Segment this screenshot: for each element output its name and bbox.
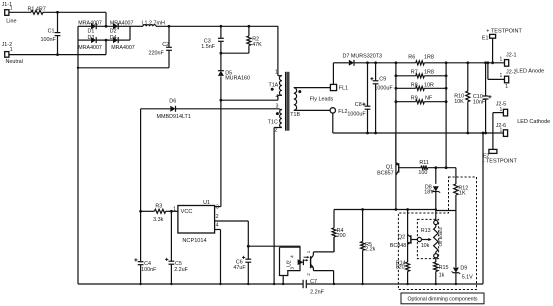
svg-text:J2-1: J2-1 [506, 52, 517, 58]
svg-text:NCP1014: NCP1014 [182, 238, 206, 244]
svg-text:4: 4 [289, 255, 294, 258]
svg-text:3.3k: 3.3k [153, 217, 163, 223]
svg-text:1.5nF: 1.5nF [201, 44, 215, 50]
svg-text:1: 1 [275, 69, 278, 75]
svg-text:100: 100 [418, 170, 427, 176]
svg-text:R1 4R7: R1 4R7 [28, 7, 46, 13]
svg-text:1R8: 1R8 [424, 55, 434, 61]
svg-text:1: 1 [500, 73, 503, 79]
svg-text:1000uF: 1000uF [374, 86, 393, 92]
svg-text:10K: 10K [454, 99, 464, 105]
svg-text:D9: D9 [460, 266, 467, 272]
svg-text:MRA4007: MRA4007 [110, 21, 134, 27]
svg-text:D2: D2 [110, 28, 117, 34]
svg-text:C4: C4 [144, 261, 151, 267]
svg-text:T1A: T1A [269, 82, 279, 88]
svg-text:R15: R15 [439, 265, 449, 271]
svg-text:1k: 1k [439, 272, 445, 278]
svg-text:C1: C1 [48, 28, 55, 34]
svg-text:4: 4 [216, 222, 219, 228]
svg-text:R7: R7 [411, 70, 418, 76]
svg-text:47uF: 47uF [233, 265, 246, 271]
svg-text:100nF: 100nF [41, 37, 57, 43]
svg-text:E1: E1 [482, 36, 489, 42]
svg-text:220nF: 220nF [149, 51, 165, 57]
svg-text:5.1V: 5.1V [462, 274, 473, 280]
svg-text:10nF: 10nF [473, 99, 486, 105]
svg-text:Neutral: Neutral [6, 59, 23, 65]
svg-text:MRA4007: MRA4007 [111, 45, 135, 51]
svg-text:D6: D6 [169, 99, 176, 105]
svg-text:- TESTPOINT: - TESTPOINT [483, 159, 518, 165]
svg-text:C2: C2 [162, 42, 169, 48]
svg-text:D1: D1 [88, 28, 95, 34]
svg-text:T1B: T1B [290, 112, 300, 118]
svg-text:2.2nF: 2.2nF [310, 289, 324, 295]
svg-text:C8: C8 [355, 102, 362, 108]
svg-text:MURA160: MURA160 [225, 76, 250, 82]
svg-text:L1 2.7mH: L1 2.7mH [142, 21, 165, 27]
svg-text:D3: D3 [88, 35, 95, 41]
svg-text:Fly Leads: Fly Leads [310, 97, 334, 103]
svg-text:U2: U2 [287, 260, 293, 267]
svg-text:1: 1 [10, 47, 13, 53]
svg-text:Line: Line [6, 18, 16, 24]
svg-text:NF: NF [425, 96, 433, 102]
svg-text:+ TESTPOINT: + TESTPOINT [486, 28, 522, 34]
svg-text:1: 1 [500, 56, 503, 62]
svg-text:R9: R9 [411, 96, 418, 102]
svg-text:1: 1 [500, 107, 503, 113]
svg-text:3: 3 [216, 204, 219, 210]
svg-text:1: 1 [505, 84, 508, 90]
svg-text:R8: R8 [411, 82, 418, 88]
svg-text:200: 200 [337, 233, 346, 239]
svg-text:J2-2: J2-2 [506, 70, 517, 76]
svg-text:1: 1 [10, 6, 13, 12]
svg-text:18V: 18V [424, 190, 434, 196]
svg-text:LED Cathode: LED Cathode [517, 119, 550, 125]
svg-text:R3: R3 [155, 204, 162, 210]
svg-text:C5: C5 [175, 261, 182, 267]
svg-text:BC857: BC857 [377, 170, 393, 176]
svg-text:Optional dimming components: Optional dimming components [407, 296, 477, 302]
svg-text:1000uF: 1000uF [347, 111, 366, 117]
svg-text:T1C: T1C [268, 119, 278, 125]
svg-text:FL2: FL2 [338, 109, 347, 115]
svg-text:10R: 10R [424, 82, 434, 88]
svg-text:D4: D4 [110, 35, 117, 41]
svg-text:1R8: 1R8 [424, 70, 434, 76]
svg-text:Off board: Off board [438, 227, 443, 247]
svg-text:MRA4007: MRA4007 [78, 21, 102, 27]
svg-text:2: 2 [275, 128, 278, 134]
svg-text:R13: R13 [421, 228, 431, 234]
svg-text:LED Anode: LED Anode [516, 69, 544, 75]
svg-text:R6: R6 [408, 55, 415, 61]
svg-text:2.2uF: 2.2uF [174, 267, 188, 273]
svg-text:C9: C9 [379, 76, 386, 82]
svg-text:4: 4 [276, 94, 279, 100]
svg-text:2: 2 [306, 273, 311, 276]
svg-text:D7 MURS320T3: D7 MURS320T3 [343, 54, 383, 60]
svg-text:2.2k: 2.2k [365, 247, 375, 253]
svg-text:FL1: FL1 [339, 85, 348, 91]
svg-text:2: 2 [216, 214, 219, 220]
svg-text:1K: 1K [459, 190, 466, 196]
svg-text:3: 3 [289, 266, 294, 269]
svg-text:1: 1 [306, 250, 311, 253]
svg-text:Q2: Q2 [398, 234, 405, 240]
svg-text:1: 1 [500, 128, 503, 134]
svg-text:10k: 10k [421, 243, 430, 249]
svg-text:100nF: 100nF [141, 267, 157, 273]
svg-text:R11: R11 [419, 160, 429, 166]
svg-text:VCC: VCC [181, 209, 193, 215]
svg-text:820: 820 [396, 265, 405, 271]
svg-text:47K: 47K [252, 42, 262, 48]
svg-text:3: 3 [276, 103, 279, 109]
svg-text:MRA4007: MRA4007 [78, 45, 102, 51]
svg-text:U1: U1 [203, 200, 210, 206]
svg-text:MMBD914LT1: MMBD914LT1 [157, 114, 191, 120]
